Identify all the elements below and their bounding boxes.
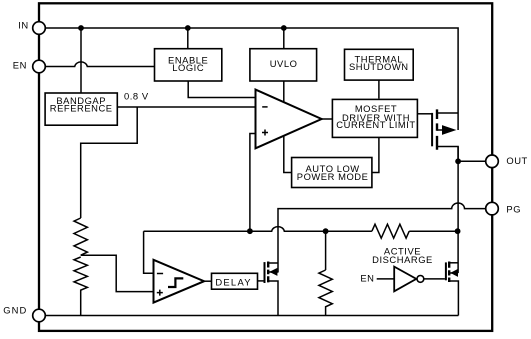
svg-text:DISCHARGE: DISCHARGE: [372, 254, 433, 265]
block ENABLE LOGIC: [155, 49, 222, 81]
node junction feedback rail / error amp input: [247, 228, 253, 234]
svg-text:PG: PG: [506, 204, 521, 215]
transistor Q3 active discharge NMOS: [446, 262, 459, 316]
wire UVLO down into error amp: [283, 80, 285, 102]
wire thermal shutdown to mosfet driver: [378, 80, 380, 98]
node junction feedback rail / R4: [323, 228, 329, 234]
block AUTO LOW POWER MODE: [292, 158, 372, 188]
svg-text:OUT: OUT: [506, 155, 527, 166]
svg-text:LOGIC: LOGIC: [172, 62, 204, 73]
op-amp U2 schmitt comparator: [154, 260, 205, 303]
wire OUT junction to OUT pin: [458, 160, 492, 162]
wire GND rail: [39, 315, 458, 317]
wire PG line from pulldown FET to PG pin with hop over OUT vertical: [278, 203, 492, 272]
transistor Q2 PG pulldown NMOS: [265, 262, 279, 316]
wire IN rail down to UVLO: [283, 28, 285, 49]
op-amp U1 error amplifier: [256, 90, 322, 149]
node junction feedback rail / OUT vertical: [455, 228, 461, 234]
wire divider tap to schmitt comparator plus input: [81, 255, 154, 291]
wire error amp to auto low power mode: [284, 136, 292, 173]
wire OUT net vertical (source of pass FET down to discharge FET): [457, 147, 459, 274]
pin EN: [13, 59, 46, 72]
wire mosfet driver to auto low power mode: [372, 138, 379, 173]
wire feedback rail up to error amp plus input: [250, 134, 256, 232]
block DELAY: [212, 273, 258, 289]
svg-text:0.8 V: 0.8 V: [124, 90, 149, 101]
block THERMAL SHUTDOWN: [345, 49, 414, 80]
pin OUT: [486, 155, 528, 168]
resistor R2 divider lower: [74, 257, 87, 316]
transistor Q1 pass PMOS: [417, 109, 458, 161]
wire IN rail down to bandgap reference: [80, 28, 82, 93]
svg-text:CURRENT LIMIT: CURRENT LIMIT: [336, 119, 415, 130]
wire 0.8V branch down-left to divider top: [81, 107, 138, 218]
wire EN to ENABLE LOGIC with hop over bandgap feed: [39, 62, 155, 67]
svg-text:SHUTDOWN: SHUTDOWN: [349, 61, 409, 72]
wire EN label to inverter: [377, 278, 395, 280]
block UVLO: [250, 49, 317, 81]
node junction on IN rail at x=81: [78, 25, 84, 31]
svg-text:POWER MODE: POWER MODE: [297, 171, 369, 182]
block BANDGAP REFERENCE: [45, 93, 117, 125]
wire feedback rail down to R4: [325, 231, 327, 270]
block MOSFET DRIVER WITH CURRENT LIMIT: [332, 99, 417, 137]
node junction on IN rail at x=284: [281, 25, 287, 31]
svg-text:DELAY: DELAY: [215, 277, 252, 288]
wire error amp output to mosfet driver: [322, 118, 333, 120]
wire feedback rail with hop over PG pulldown drain and to OUT vertical: [144, 227, 458, 232]
wire IN rail from IN pin to pass FET drain: [39, 28, 458, 130]
wire enable logic output to error amp: [188, 81, 255, 98]
svg-text:EN: EN: [13, 59, 27, 70]
svg-text:GND: GND: [3, 305, 27, 316]
node junction on IN rail at x=188: [185, 25, 191, 31]
resistor R1 divider upper: [74, 218, 87, 255]
wire DELAY to PG pulldown gate: [258, 280, 265, 282]
wire inverter to discharge FET gate: [424, 278, 445, 280]
wire schmitt output to DELAY: [204, 280, 211, 282]
resistor R3 feedback top (horizontal): [372, 224, 409, 238]
svg-text:EN: EN: [360, 273, 374, 284]
pin GND: [3, 305, 45, 322]
node junction OUT: [455, 158, 461, 164]
wire 0.8V reference to error amp inverting input: [117, 106, 255, 108]
wire feedback rail down to schmitt comparator minus input: [144, 231, 154, 273]
pin PG: [486, 202, 521, 215]
svg-text:UVLO: UVLO: [270, 58, 298, 69]
svg-text:REFERENCE: REFERENCE: [50, 103, 113, 114]
inverter U3 active discharge: [394, 267, 424, 292]
wire IN rail down to enable logic: [187, 28, 189, 49]
resistor R4 feedback bottom (vertical): [319, 270, 332, 316]
svg-text:IN: IN: [18, 19, 28, 30]
pin IN: [18, 19, 45, 34]
